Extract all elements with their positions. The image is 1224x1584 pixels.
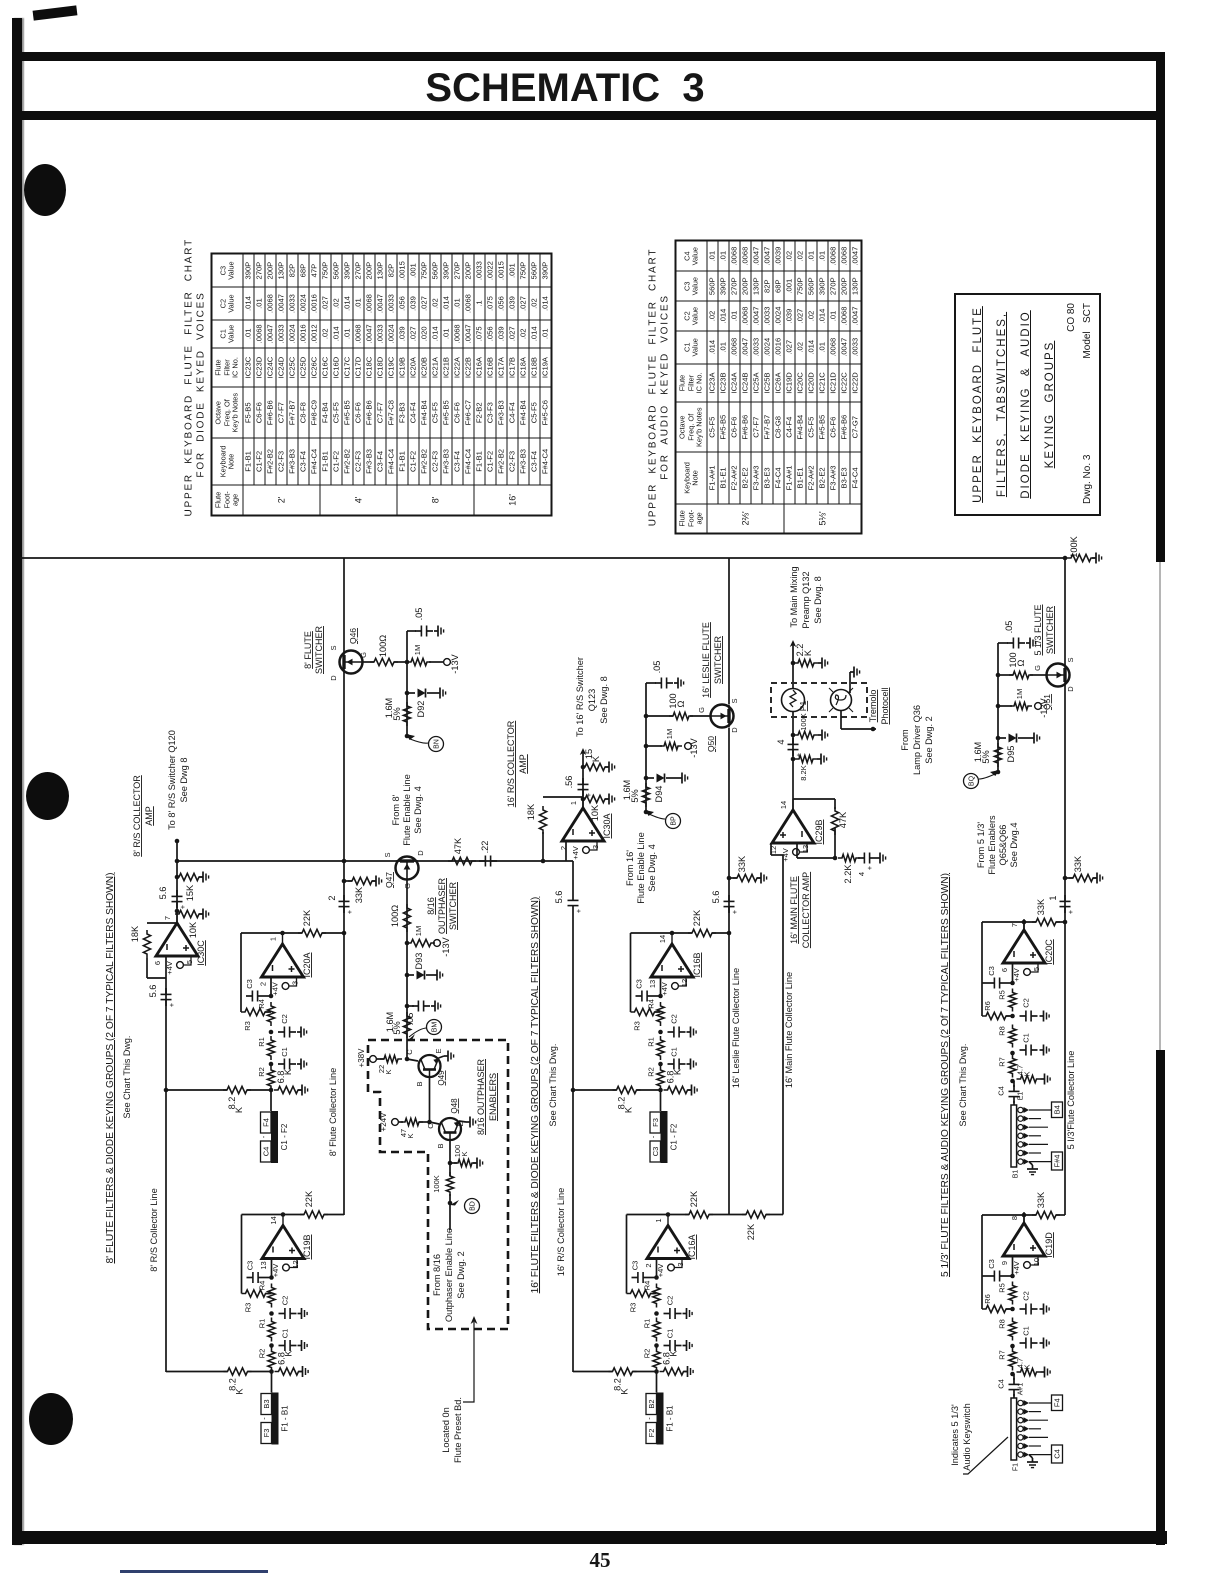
svg-text:R7: R7 [998,1057,1007,1067]
svg-text:14: 14 [658,935,667,943]
svg-text:100Ω: 100Ω [390,905,400,927]
node junction 1M Q47 [405,941,410,946]
terminal -13V terminal Q51 [1035,703,1042,710]
wire stub D93 [407,974,414,976]
svg-text:Tremolo: Tremolo [868,690,878,723]
svg-text:See Chart This Dwg.: See Chart This Dwg. [548,1044,558,1127]
svg-text:C2: C2 [1022,998,1031,1008]
svg-text:7: 7 [1010,923,1019,927]
keyswitch contact IC19D 5 [1018,1435,1023,1440]
keyswitch diode IC19D 5 [1024,1434,1030,1440]
svg-text:16' FLUTE FILTERS & DIODE KEYI: 16' FLUTE FILTERS & DIODE KEYING GROUPS … [530,897,541,1294]
resistor 33K IC19D [1032,1211,1060,1218]
svg-text:4: 4 [776,739,786,744]
capacitor C1 IC19D [1020,1338,1038,1349]
resistor 33K 8' line [348,877,376,884]
keyswitch contact wire IC19D 6 [1029,1445,1041,1447]
wire stub D92 [407,692,415,694]
wire gate bias wire Q50 [646,715,673,717]
keyswitch contact IC19D 2 [1018,1409,1023,1414]
svg-text:SWITCHER: SWITCHER [448,882,458,930]
terminal +4V terminal IC16B [672,983,679,990]
svg-text:From 5 1/3': From 5 1/3' [976,822,986,868]
svg-text:K: K [406,1133,415,1138]
svg-text:To Main Mixing: To Main Mixing [789,566,799,627]
wire 16' R/S collector line [572,912,574,1372]
node IC20C node B [1010,1051,1015,1056]
capacitor cap 4 IC29B [858,853,876,864]
wire Q48 emitter gnd wire [459,1121,466,1122]
ground ground C1 IC20A [297,1059,307,1070]
capacitor C3 IC19B [247,1272,265,1283]
svg-text:IC16A: IC16A [687,1234,697,1259]
node junction gate bias Q46 [405,660,410,665]
svg-text:16' R/S Collector Line: 16' R/S Collector Line [556,1188,566,1277]
wire IC30C feedback to pin6 [147,977,166,979]
transistor Q50 (FET switcher) [711,705,734,728]
op-amp IC30A [562,797,604,841]
wire 16 leslie collector line upper [728,558,730,705]
capacitor cap 2 on 8' line [339,895,350,913]
op-amp IC20C [1003,919,1045,963]
resistor 8.2K main [795,755,817,762]
svg-text:.05: .05 [1004,621,1014,634]
svg-text:S: S [329,645,338,650]
wire IC20A pin2 stub [270,977,272,996]
svg-text:5 1/3 FLUTE: 5 1/3 FLUTE [1033,604,1043,655]
terminal +38V terminal [370,1056,377,1063]
svg-text:47K: 47K [838,811,848,828]
wire wire -13V Q46 [429,661,443,663]
svg-text:S: S [1066,657,1075,662]
wire IC16B feed wire2 [637,1089,661,1091]
svg-text:R5: R5 [998,990,1007,1000]
svg-text:5: 5 [1032,967,1041,971]
resistor 6.8K IC16B [664,1086,692,1093]
wire main output column lower [792,711,794,810]
keyswitch diode IC19D 4 [1024,1426,1030,1432]
wire IC20C R6 right [1006,1015,1013,1017]
wire IC29B feedback bottom [834,828,836,858]
op-amp IC30C [156,912,198,956]
ground ground 6.8K IC20A [298,1085,308,1096]
svg-text:IC19B: IC19B [302,1234,312,1259]
resistor R7 IC19D [1009,1348,1016,1371]
wire IC16A feed wire [573,1371,613,1373]
resistor R3 IC16B [631,1008,659,1015]
resistor 15K IC30C [175,873,203,880]
terminal +4V terminal IC16A [668,1264,675,1271]
filter chart table: audio keyed voices (rotated) [648,240,866,535]
svg-text:22K: 22K [746,1223,756,1240]
wire IC19D feedback line2 [1056,1214,1065,1216]
svg-text:R4: R4 [258,1281,267,1291]
svg-text:Q48: Q48 [450,1098,459,1114]
keyswitch contact IC19D 3 [1018,1418,1023,1423]
wire pin3 stub IC16B [679,977,686,986]
svg-text:18K: 18K [130,925,140,942]
svg-text:-13V: -13V [1039,697,1049,717]
dashed box tremolo photocell [771,683,867,717]
svg-text:BP: BP [671,816,678,826]
label box key note bottom IC20C [1052,1152,1063,1170]
node junction RS line 1090 [164,1088,169,1093]
svg-text:C: C [426,1123,435,1129]
node IC16A node B [654,1343,659,1348]
svg-text:-: - [645,1417,654,1420]
svg-text:16' Main Flute Collector Line: 16' Main Flute Collector Line [784,972,794,1088]
node IC20C node C [1010,1079,1015,1084]
wire 16' R/S collector line top [572,861,574,894]
wire IC19D R6 right [1006,1308,1013,1310]
resistor R1 IC16A [653,1318,660,1342]
svg-text:R6: R6 [983,1294,992,1304]
resistor 22K IC16B [688,929,716,936]
svg-text:D: D [329,675,338,681]
svg-text:See Dwg. 2: See Dwg. 2 [456,1251,466,1299]
wire IC19D C3 left [982,1275,988,1277]
wire IC16A pin2 stub [656,1259,658,1278]
resistor 33K IC20C [1032,918,1060,925]
svg-text:.05: .05 [414,608,424,621]
resistor 47K outphaser line [448,857,476,864]
svg-text:D: D [730,727,739,733]
node junction 16L feedback [727,931,732,936]
terminal -13V terminal Q46 [444,659,451,666]
resistor R3 IC16A [627,1290,655,1297]
wire 100K branch wire [450,1162,457,1164]
svg-text:R2: R2 [257,1067,266,1077]
wire IC19B feedback line [242,1214,305,1216]
ground ground D94 [678,773,688,784]
svg-text:3: 3 [291,981,300,985]
capacitor C3 IC16A [632,1272,650,1283]
wire IC16B to keying bar [660,1090,662,1111]
wire bias chain Q51 vertical [997,643,999,772]
svg-text:R5: R5 [998,1283,1007,1293]
svg-text:1: 1 [269,937,278,941]
ground ground keyswitch IC20C [1027,1165,1038,1175]
capacitor C2 IC16B [668,1027,686,1038]
wire Q50 gate wire [690,715,710,717]
svg-text:C3: C3 [246,1261,255,1271]
svg-text:To 8' R/S Switcher Q120: To 8' R/S Switcher Q120 [167,730,177,830]
svg-text:+: + [1066,909,1075,914]
svg-text:See Dwg. 8: See Dwg. 8 [599,676,609,724]
binder hole dot 1 [24,164,66,216]
resistor R5 IC19D [1009,1282,1016,1305]
node junction 8' 33K [342,879,347,884]
resistor R2 IC20A [267,1066,274,1090]
svg-text:+: + [345,909,354,914]
binder hole dot 3 [29,1393,73,1445]
node junction gate bias Q50 [644,714,649,719]
node junction 15K IC30A [581,765,586,770]
wire IC16A feedback line2 [709,1214,729,1216]
svg-text:R7: R7 [998,1350,1007,1360]
svg-text:100K: 100K [432,1175,441,1193]
svg-text:18K: 18K [526,803,536,820]
capacitor C1 IC19B [279,1340,297,1351]
node junction 1M Q50 [644,744,649,749]
svg-text:BQ: BQ [969,775,976,786]
svg-text:3: 3 [676,1262,685,1266]
svg-text:R3: R3 [629,1303,638,1313]
wire IC16B feedback line [631,932,693,934]
svg-text:Flute Enable Line: Flute Enable Line [636,832,646,904]
keyswitch contact wire IC20C 6 [1029,1152,1041,1154]
wire cap branch Q50 [646,682,656,684]
svg-text:D94: D94 [654,786,664,803]
keyswitch contact wire IC20C 1 [1029,1109,1051,1111]
wire bridge wire2 [766,1214,783,1216]
svg-text:1M: 1M [414,926,423,936]
capacitor cap 4 main [788,738,799,756]
wire gate bias wire Q51 [998,674,1013,676]
wire 8 foot flute collector line low1 [343,861,345,1215]
wire IC19D C3 right [1006,1275,1013,1277]
resistor 33K 16L [733,874,761,881]
wire 8' R/S collector line [165,978,167,1372]
label box F3 IC19B [261,1423,272,1444]
wire pin3 stub IC19B [290,1259,297,1268]
svg-text:3: 3 [591,845,600,849]
svg-text:1: 1 [654,1218,663,1222]
capacitor cap .05 Q46 [415,626,433,637]
wire lamp gnd wire [849,672,851,693]
wire pin3 stub IC20C [1031,963,1038,972]
node BP callout [666,814,681,829]
wire IC20C keyswitch gnd wire [1029,1162,1033,1165]
svg-text:5.6: 5.6 [148,985,158,998]
wire IC20A R3 right [265,1011,271,1013]
svg-text:22K: 22K [304,1190,314,1207]
capacitor C1 IC16B [668,1059,686,1070]
resistor R1 IC20A [267,1036,274,1060]
wire IC19B to keying bar [271,1372,273,1393]
capacitor cap 5.6 on 16L line [724,895,735,913]
keyswitch busbar IC20C [1011,1105,1017,1167]
svg-text:5%: 5% [392,707,402,720]
wire stub D95 [998,737,1006,739]
svg-text:4: 4 [857,872,866,876]
wire IC30A pin2 stub [565,841,567,861]
svg-text:C2: C2 [280,1014,289,1024]
keyswitch contact wire IC19D 7 [1029,1454,1051,1456]
resistor 100K enable line [446,1172,453,1196]
node junction 1M Q51 [996,704,1001,709]
capacitor C3 IC20C [988,978,1006,989]
node junction 15K IC30C [175,875,180,880]
svg-text:+: + [865,865,874,870]
capacitor C4 IC20C [1009,1085,1020,1103]
svg-text:-: - [260,1417,269,1420]
ground ground C1 IC20C [1040,1045,1050,1056]
keyswitch contact IC20C 6 [1018,1150,1023,1155]
svg-text:R3: R3 [244,1303,253,1313]
keyswitch diode IC20C 2 [1024,1116,1030,1122]
svg-text:13: 13 [259,1261,268,1269]
keyswitch contact wire IC19D 1 [1029,1402,1051,1404]
capacitor C1 IC16A [664,1340,682,1351]
ground ground C1 IC19D [1040,1338,1050,1349]
ground ground keyswitch IC19D [1027,1458,1038,1468]
svg-text:K: K [591,755,601,762]
capacitor C2 IC19B [279,1308,297,1319]
resistor R6 IC20C [982,1012,1010,1019]
svg-text:IC20A: IC20A [302,952,312,977]
wire main output column upper [792,642,794,689]
svg-text:F2: F2 [647,1429,656,1438]
svg-text:R2: R2 [643,1349,652,1359]
wire IC20A feed wire2 [247,1089,271,1091]
wire IC29B fb right drop [834,799,836,809]
node IC19B fb node [281,1212,286,1217]
svg-text:10K: 10K [188,921,198,938]
svg-text:10K: 10K [590,804,600,821]
svg-text:SWITCHER: SWITCHER [713,636,723,684]
svg-text:R6: R6 [983,1001,992,1011]
wire IC20C C3 left [982,982,988,984]
arrow to Q123 arrow [580,748,586,755]
svg-text:SWITCHER: SWITCHER [1045,606,1055,654]
svg-text:See Dwg. 8: See Dwg. 8 [813,576,823,624]
svg-text:5.6: 5.6 [554,891,564,904]
diode keying bar IC19B [272,1393,279,1445]
label box key note top IC20C [1052,1102,1063,1118]
wire IC16B pin2 stub [660,977,662,996]
svg-text:D92: D92 [416,701,426,718]
wire Q48 C wire [430,1122,440,1124]
svg-text:14: 14 [269,1216,278,1224]
ground ground C1 IC19B [298,1340,308,1351]
ground ground .05 Q51 [1026,638,1036,649]
node junction .05 Q47 [405,1004,410,1009]
node junction 8' feedback [342,931,347,936]
arrow BQ [990,770,999,776]
svg-text:33K: 33K [1036,898,1046,915]
svg-text:F#4: F#4 [1053,1155,1062,1168]
svg-text:K: K [1023,1071,1032,1076]
resistor 100ohm Q51 [1009,671,1033,678]
resistor R1 IC19B [268,1318,275,1342]
wire bias chain Q46 vertical [406,631,408,737]
capacitor cap .56 IC30A [578,778,589,796]
capacitor cap 5.6 input IC30C [161,988,172,1006]
wire stub2 D92 [427,692,436,694]
svg-text:2: 2 [327,895,337,900]
wire IC16A feedback left vertical [626,1215,628,1294]
resistor 4.7K IC19D [1017,1368,1041,1375]
capacitor cap 5.6 16RS [568,894,579,912]
wire pointer audio keyswitch [963,1437,1008,1474]
wire IC20C C3 right [1006,982,1013,984]
svg-text:22K: 22K [302,909,312,926]
diode D93 [417,971,425,980]
svg-text:+38V: +38V [357,1048,366,1068]
arrow BN [406,734,415,740]
svg-text:Q49: Q49 [437,1070,446,1086]
svg-text:IC16B: IC16B [692,952,702,977]
svg-text:.22: .22 [480,841,490,854]
svg-text:F3: F3 [262,1429,271,1438]
node BM callout [427,1020,442,1035]
svg-text:Flute Enable Line: Flute Enable Line [402,774,412,846]
svg-text:1: 1 [1048,895,1058,900]
svg-text:B2: B2 [647,1399,656,1408]
node IC20C node C3 [1010,981,1015,986]
wire IC16B feed wire [573,1089,617,1091]
label box B2 IC16A [646,1394,657,1415]
svg-text:R2: R2 [258,1349,267,1359]
wire pin3 stub IC16A [675,1259,682,1268]
node junction D92 Q46 [405,691,410,696]
capacitor C2 IC16A [664,1308,682,1319]
node IC19B node A [269,1311,274,1316]
svg-text:C3: C3 [651,1147,660,1157]
wire 8 foot flute collector line mid [343,673,345,862]
svg-text:BM: BM [432,1022,439,1033]
ground ground 10K IC30C [199,909,209,920]
keyswitch contact IC20C 7 [1018,1159,1023,1164]
node IC19D node B [1010,1344,1015,1349]
resistor R7 IC20C [1009,1055,1016,1078]
resistor R1 IC16B [657,1036,664,1060]
svg-text:Q50: Q50 [706,736,716,752]
ground ground C2 IC19B [298,1308,308,1319]
photoresistor P1 [782,689,805,712]
wire 16 leslie collector line mid [728,728,730,1215]
label box B3 IC19B [261,1394,272,1415]
wire IC16B R3 right [655,1011,661,1013]
svg-text:-13V: -13V [689,737,699,757]
node IC20A feed node [269,1088,274,1093]
wire wire 1M Q51 [998,705,1012,707]
svg-text:-: - [649,1135,658,1138]
ground ground 4.7K IC19D [1041,1367,1051,1378]
capacitor C1 IC20C [1020,1045,1038,1056]
header band bottom rule [20,111,1158,120]
bottom page border bar [20,1531,1167,1544]
label box C3 IC16B [650,1141,661,1162]
ground ground 8.2K main [817,754,827,765]
wire pin3 stub IC30A [590,841,597,850]
resistor 1M Q50 [660,742,682,749]
resistor 47K enabler [401,1118,423,1125]
wire IC20C wire to C4 [1013,1081,1015,1087]
resistor 8.2K IC20A [223,1086,251,1093]
wire stub2 D93 [426,974,433,976]
svg-text:See Dwg 8: See Dwg 8 [179,758,189,803]
node node 100K branch [448,1161,453,1166]
keyswitch diode IC20C 7 [1024,1159,1030,1165]
svg-text:33K: 33K [1036,1191,1046,1208]
node IC19D node A [1010,1307,1015,1312]
wire IC20C feedback line2 [1056,921,1065,923]
keyswitch contact IC19D 1 [1018,1400,1023,1405]
svg-text:See Dwg. 4: See Dwg. 4 [413,786,423,834]
resistor R2 IC16A [653,1348,660,1372]
resistor 6.8K IC16A [660,1368,688,1375]
resistor 8.2K IC16A [609,1368,637,1375]
svg-text:R2: R2 [647,1067,656,1077]
svg-text:8' FLUTE FILTERS & DIODE KEYIN: 8' FLUTE FILTERS & DIODE KEYING GROUPS (… [105,872,116,1263]
resistor R8 IC20C [1009,1025,1016,1048]
node node BD [448,1201,453,1206]
header title SCHEMATIC 3 [0,66,1130,111]
keyswitch contact IC20C 3 [1018,1125,1023,1130]
svg-text:-13V: -13V [450,653,460,673]
